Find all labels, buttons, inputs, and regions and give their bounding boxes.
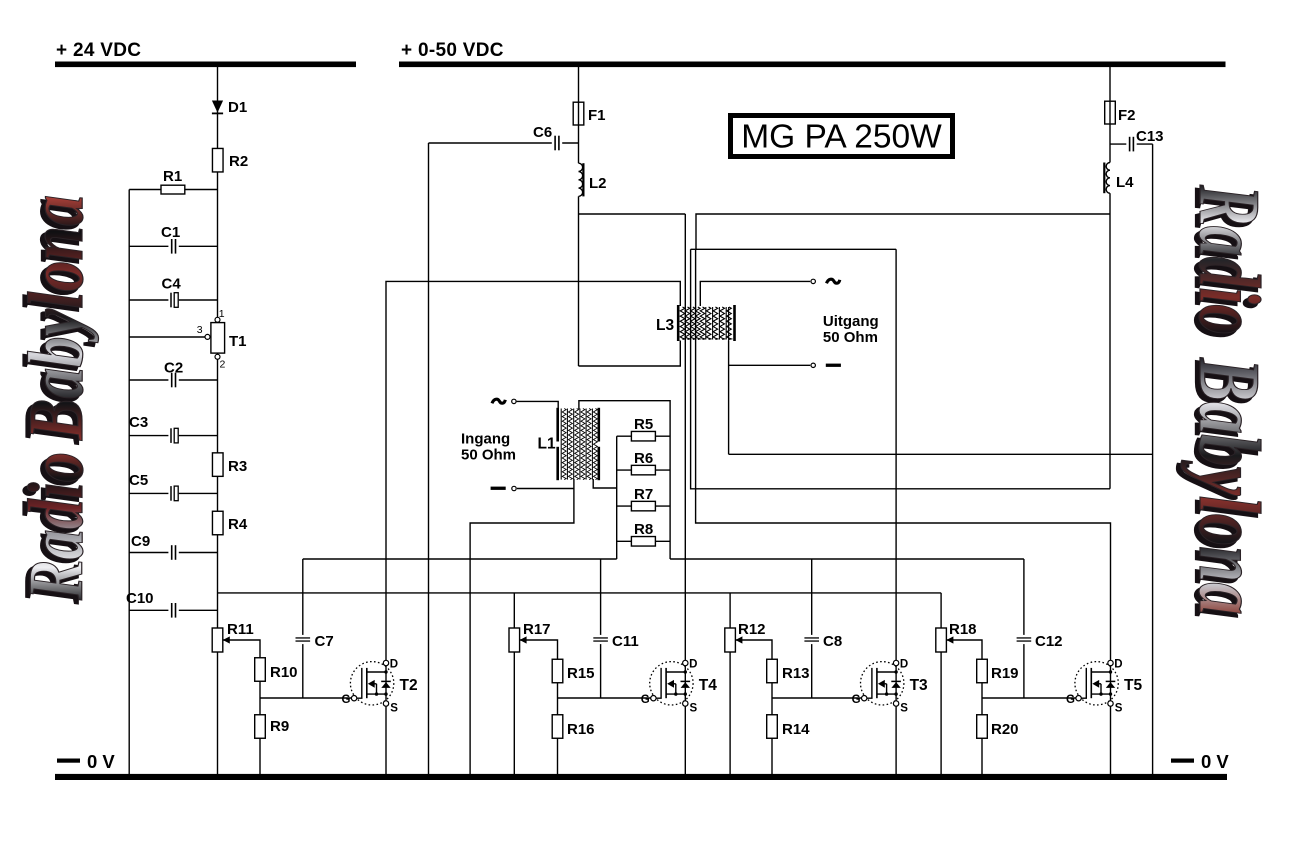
svg-text:3: 3 [197, 324, 203, 336]
capacitor C13 [1126, 128, 1163, 153]
svg-text:R11: R11 [227, 621, 254, 638]
svg-text:MG PA 250W: MG PA 250W [741, 119, 942, 156]
capacitor C2 [164, 360, 183, 389]
wire: C3 rung [129, 435, 217, 437]
svg-text:Babylona: Babylona [1180, 357, 1277, 615]
capacitor C8 [804, 633, 842, 650]
svg-text:Babylona: Babylona [12, 195, 99, 441]
svg-text:D1: D1 [228, 99, 247, 116]
wire: T3 gate wire [772, 697, 866, 699]
wire: C1 rung [129, 245, 217, 247]
wire: L3 pass-through A (T4 drain) [684, 214, 686, 663]
resistor R4 [212, 511, 247, 535]
svg-text:T4: T4 [699, 677, 717, 694]
power bus +24 VDC [55, 40, 356, 67]
wire: C12 branch [1023, 559, 1025, 698]
transistor T2 [342, 659, 418, 715]
resistor R1 [161, 168, 185, 194]
svg-text:L4: L4 [1116, 174, 1134, 191]
wire: T4 source to ground [684, 704, 686, 775]
svg-text:G: G [1066, 694, 1075, 706]
fuse F1 [573, 102, 605, 125]
potentiometer R17 [509, 621, 551, 652]
wire: C4 rung [129, 299, 217, 301]
wire: L3 secondary bottom [728, 341, 730, 455]
wire: C7 branch [302, 559, 304, 698]
svg-text:C2: C2 [164, 360, 183, 377]
terminal output ~ [811, 279, 840, 283]
capacitor C7 [295, 633, 333, 650]
svg-text:S: S [900, 703, 908, 715]
wire: L1 top to R5-R8 right rail [579, 401, 670, 559]
resistor R2 [212, 148, 248, 172]
capacitor C12 [1016, 633, 1062, 650]
wire: output box bottom [729, 453, 1153, 455]
wire: T2 gate wire [260, 697, 351, 699]
svg-text:S: S [690, 703, 698, 715]
wire: right ladder rail [217, 67, 219, 774]
wire: R12 wiper to R13 [736, 640, 772, 659]
resistor R7 [631, 486, 655, 511]
wire: input minus link [517, 488, 574, 490]
wire: C11 branch [600, 559, 602, 698]
inductor L2 [573, 163, 606, 196]
label Ingang 50 Ohm [461, 431, 516, 464]
wire: R10-R9 branch [259, 657, 261, 774]
wire: output box right (T3 drain) [895, 249, 897, 663]
svg-text:R5: R5 [634, 416, 653, 433]
wire: pass-through B down [691, 249, 1110, 488]
resistor R8 [631, 521, 655, 546]
wire: left ladder rail [128, 190, 130, 775]
wire: R15-R16 branch [557, 659, 559, 774]
capacitor C3 [129, 414, 179, 444]
svg-text:C3: C3 [129, 414, 148, 431]
inductor L4 [1103, 163, 1134, 194]
svg-text:C11: C11 [612, 633, 639, 650]
svg-text:C7: C7 [315, 633, 334, 650]
resistor R10 [255, 658, 298, 682]
wire: L3 secondary link [691, 248, 897, 250]
title box MG PA 250W [731, 116, 953, 157]
wire: R18 wiper to R19 [947, 640, 982, 659]
svg-text:50 Ohm: 50 Ohm [461, 447, 516, 464]
svg-text:F2: F2 [1118, 107, 1136, 124]
watermark right Radio Babylona [1176, 184, 1277, 618]
wire: F2-L4 branch [1109, 67, 1111, 489]
svg-text:S: S [1115, 703, 1123, 715]
resistor R20 [977, 715, 1019, 739]
wire: gate bias rail upper [303, 558, 1024, 560]
svg-text:C13: C13 [1136, 128, 1164, 145]
wire: C9 rung [129, 552, 217, 554]
svg-text:R20: R20 [991, 721, 1019, 738]
svg-text:R7: R7 [634, 486, 653, 503]
svg-text:2: 2 [220, 359, 226, 371]
potentiometer R18 [936, 621, 977, 652]
trimmer T1 [197, 308, 247, 371]
wire: L2 to L3 primary bottom [579, 341, 681, 367]
capacitor C11 [593, 633, 639, 650]
svg-text:Uitgang: Uitgang [823, 313, 879, 330]
terminal input ~ [492, 399, 516, 403]
svg-text:C5: C5 [129, 472, 148, 489]
transistor T4 [641, 659, 717, 715]
svg-text:R12: R12 [738, 621, 766, 638]
capacitor C9 [131, 533, 179, 561]
wire: L1 bottom to R5-R8 left rail [593, 479, 617, 488]
svg-text:R4: R4 [228, 516, 248, 533]
wire: C6 ground drop [428, 143, 430, 774]
wire: R17 wiper to R15 [520, 640, 558, 659]
transformer L3 [656, 305, 736, 341]
svg-text:R3: R3 [228, 458, 247, 475]
wire: R1 rung [129, 189, 217, 191]
resistor R19 [977, 659, 1019, 683]
wire: R5-R8 left rail [616, 436, 618, 559]
resistor R3 [212, 453, 247, 477]
svg-text:Ingang: Ingang [461, 431, 510, 448]
svg-text:C10: C10 [126, 590, 154, 607]
svg-text:G: G [641, 694, 650, 706]
svg-text:R8: R8 [634, 521, 653, 538]
svg-text:D: D [1114, 659, 1122, 671]
power bus +0-50 VDC [399, 40, 1226, 67]
svg-text:R6: R6 [634, 450, 653, 467]
terminal input minus [491, 486, 517, 490]
svg-text:C4: C4 [162, 276, 182, 293]
wire: T2 source to ground [385, 704, 387, 775]
svg-text:G: G [342, 694, 351, 706]
ground bus 0V [55, 751, 1229, 780]
terminal output minus [811, 363, 841, 367]
wire: C2 rung [129, 379, 217, 381]
wire: C13 drop to ground [1152, 144, 1154, 774]
transformer L1 [538, 408, 601, 480]
svg-text:0 V: 0 V [87, 751, 115, 772]
svg-text:R19: R19 [991, 665, 1019, 682]
wire: T5 source to ground [1110, 704, 1112, 775]
resistor R9 [255, 715, 289, 739]
wire: L1 bottom to input ground [470, 479, 574, 774]
wire: input ~ to L1 [517, 401, 559, 410]
svg-text:R13: R13 [782, 665, 810, 682]
svg-text:L3: L3 [656, 317, 674, 334]
resistor R6 [631, 450, 655, 475]
wire: top link L2-L4 left [579, 213, 686, 215]
label Uitgang 50 Ohm [823, 313, 879, 346]
wire: output minus link [729, 364, 811, 366]
svg-text:D: D [390, 659, 398, 671]
transistor T3 [852, 659, 928, 715]
svg-text:R2: R2 [229, 153, 248, 170]
resistor R13 [767, 659, 810, 683]
svg-text:T1: T1 [229, 333, 247, 350]
svg-text:D: D [900, 659, 908, 671]
svg-text:T2: T2 [400, 677, 418, 694]
wire: R11 wiper to R10 [223, 640, 260, 657]
wire: T3 source to ground [895, 704, 897, 775]
svg-text:C9: C9 [131, 533, 150, 550]
transistor T5 [1066, 659, 1142, 715]
wire: T1 pin3 rung [129, 336, 205, 338]
wire: C13 link [1110, 143, 1153, 145]
wire: T4 gate wire [558, 697, 651, 699]
wire: F1-L2 branch [578, 67, 580, 366]
wire: C5 rung [129, 492, 217, 494]
wire: pass-through C down [696, 249, 1111, 663]
svg-text:G: G [852, 694, 861, 706]
resistor R5 [631, 416, 655, 441]
capacitor C1 [161, 224, 180, 255]
svg-text:T3: T3 [910, 677, 928, 694]
svg-text:R15: R15 [567, 665, 595, 682]
wire: C6 link [429, 142, 579, 144]
svg-text:0 V: 0 V [1201, 751, 1229, 772]
svg-text:C1: C1 [161, 224, 180, 241]
wire: R8 leads [617, 540, 670, 542]
resistor R14 [767, 715, 810, 739]
watermark left Radio Babylona [8, 195, 99, 604]
wire: R18 branch [940, 593, 942, 774]
svg-text:+ 0-50 VDC: + 0-50 VDC [401, 40, 504, 61]
wire: top link L4 right [696, 214, 1110, 249]
svg-text:R9: R9 [270, 718, 289, 735]
svg-text:C12: C12 [1035, 633, 1063, 650]
resistor R15 [552, 659, 594, 683]
wire: L3 secondary top to output [700, 281, 810, 306]
resistor R16 [552, 715, 594, 739]
wire: R12 branch [729, 593, 731, 774]
svg-text:R1: R1 [163, 168, 182, 185]
wire: R13-R14 branch [771, 659, 773, 774]
svg-text:L1: L1 [538, 436, 556, 453]
wire: R7 leads [617, 505, 670, 507]
wire: R6 leads [617, 469, 670, 471]
svg-text:L2: L2 [589, 175, 607, 192]
wire: R5 leads [617, 435, 670, 437]
wire: C10 rung [129, 609, 217, 611]
capacitor C4 [162, 276, 182, 309]
svg-text:D: D [689, 659, 697, 671]
wire: R19-R20 branch [981, 659, 983, 774]
fuse F2 [1105, 101, 1136, 124]
diode D1 [212, 99, 247, 116]
svg-text:C6: C6 [533, 124, 552, 141]
svg-text:T5: T5 [1124, 677, 1142, 694]
svg-text:1: 1 [219, 308, 225, 320]
wire: L3 primary top to T2 drain [386, 281, 680, 663]
svg-text:R16: R16 [567, 721, 595, 738]
svg-text:R14: R14 [782, 721, 810, 738]
svg-text:F1: F1 [588, 107, 606, 124]
svg-text:Radio: Radio [12, 452, 99, 601]
svg-text:R18: R18 [949, 621, 977, 638]
wire: C8 branch [811, 559, 813, 698]
wire: R17 branch [513, 593, 515, 774]
potentiometer R12 [725, 621, 766, 652]
capacitor C10 [126, 590, 179, 619]
wire: T5 gate wire [982, 697, 1080, 699]
wire: gate bias rail lower [218, 592, 942, 594]
svg-text:S: S [390, 703, 398, 715]
svg-text:R17: R17 [523, 621, 551, 638]
capacitor C5 [129, 472, 179, 502]
svg-text:+ 24 VDC: + 24 VDC [56, 40, 141, 61]
svg-text:C8: C8 [823, 633, 842, 650]
svg-text:Radio: Radio [1180, 184, 1277, 335]
capacitor C6 [533, 124, 562, 152]
potentiometer R11 [212, 621, 254, 652]
svg-text:50 Ohm: 50 Ohm [823, 329, 878, 346]
svg-text:R10: R10 [270, 664, 298, 681]
